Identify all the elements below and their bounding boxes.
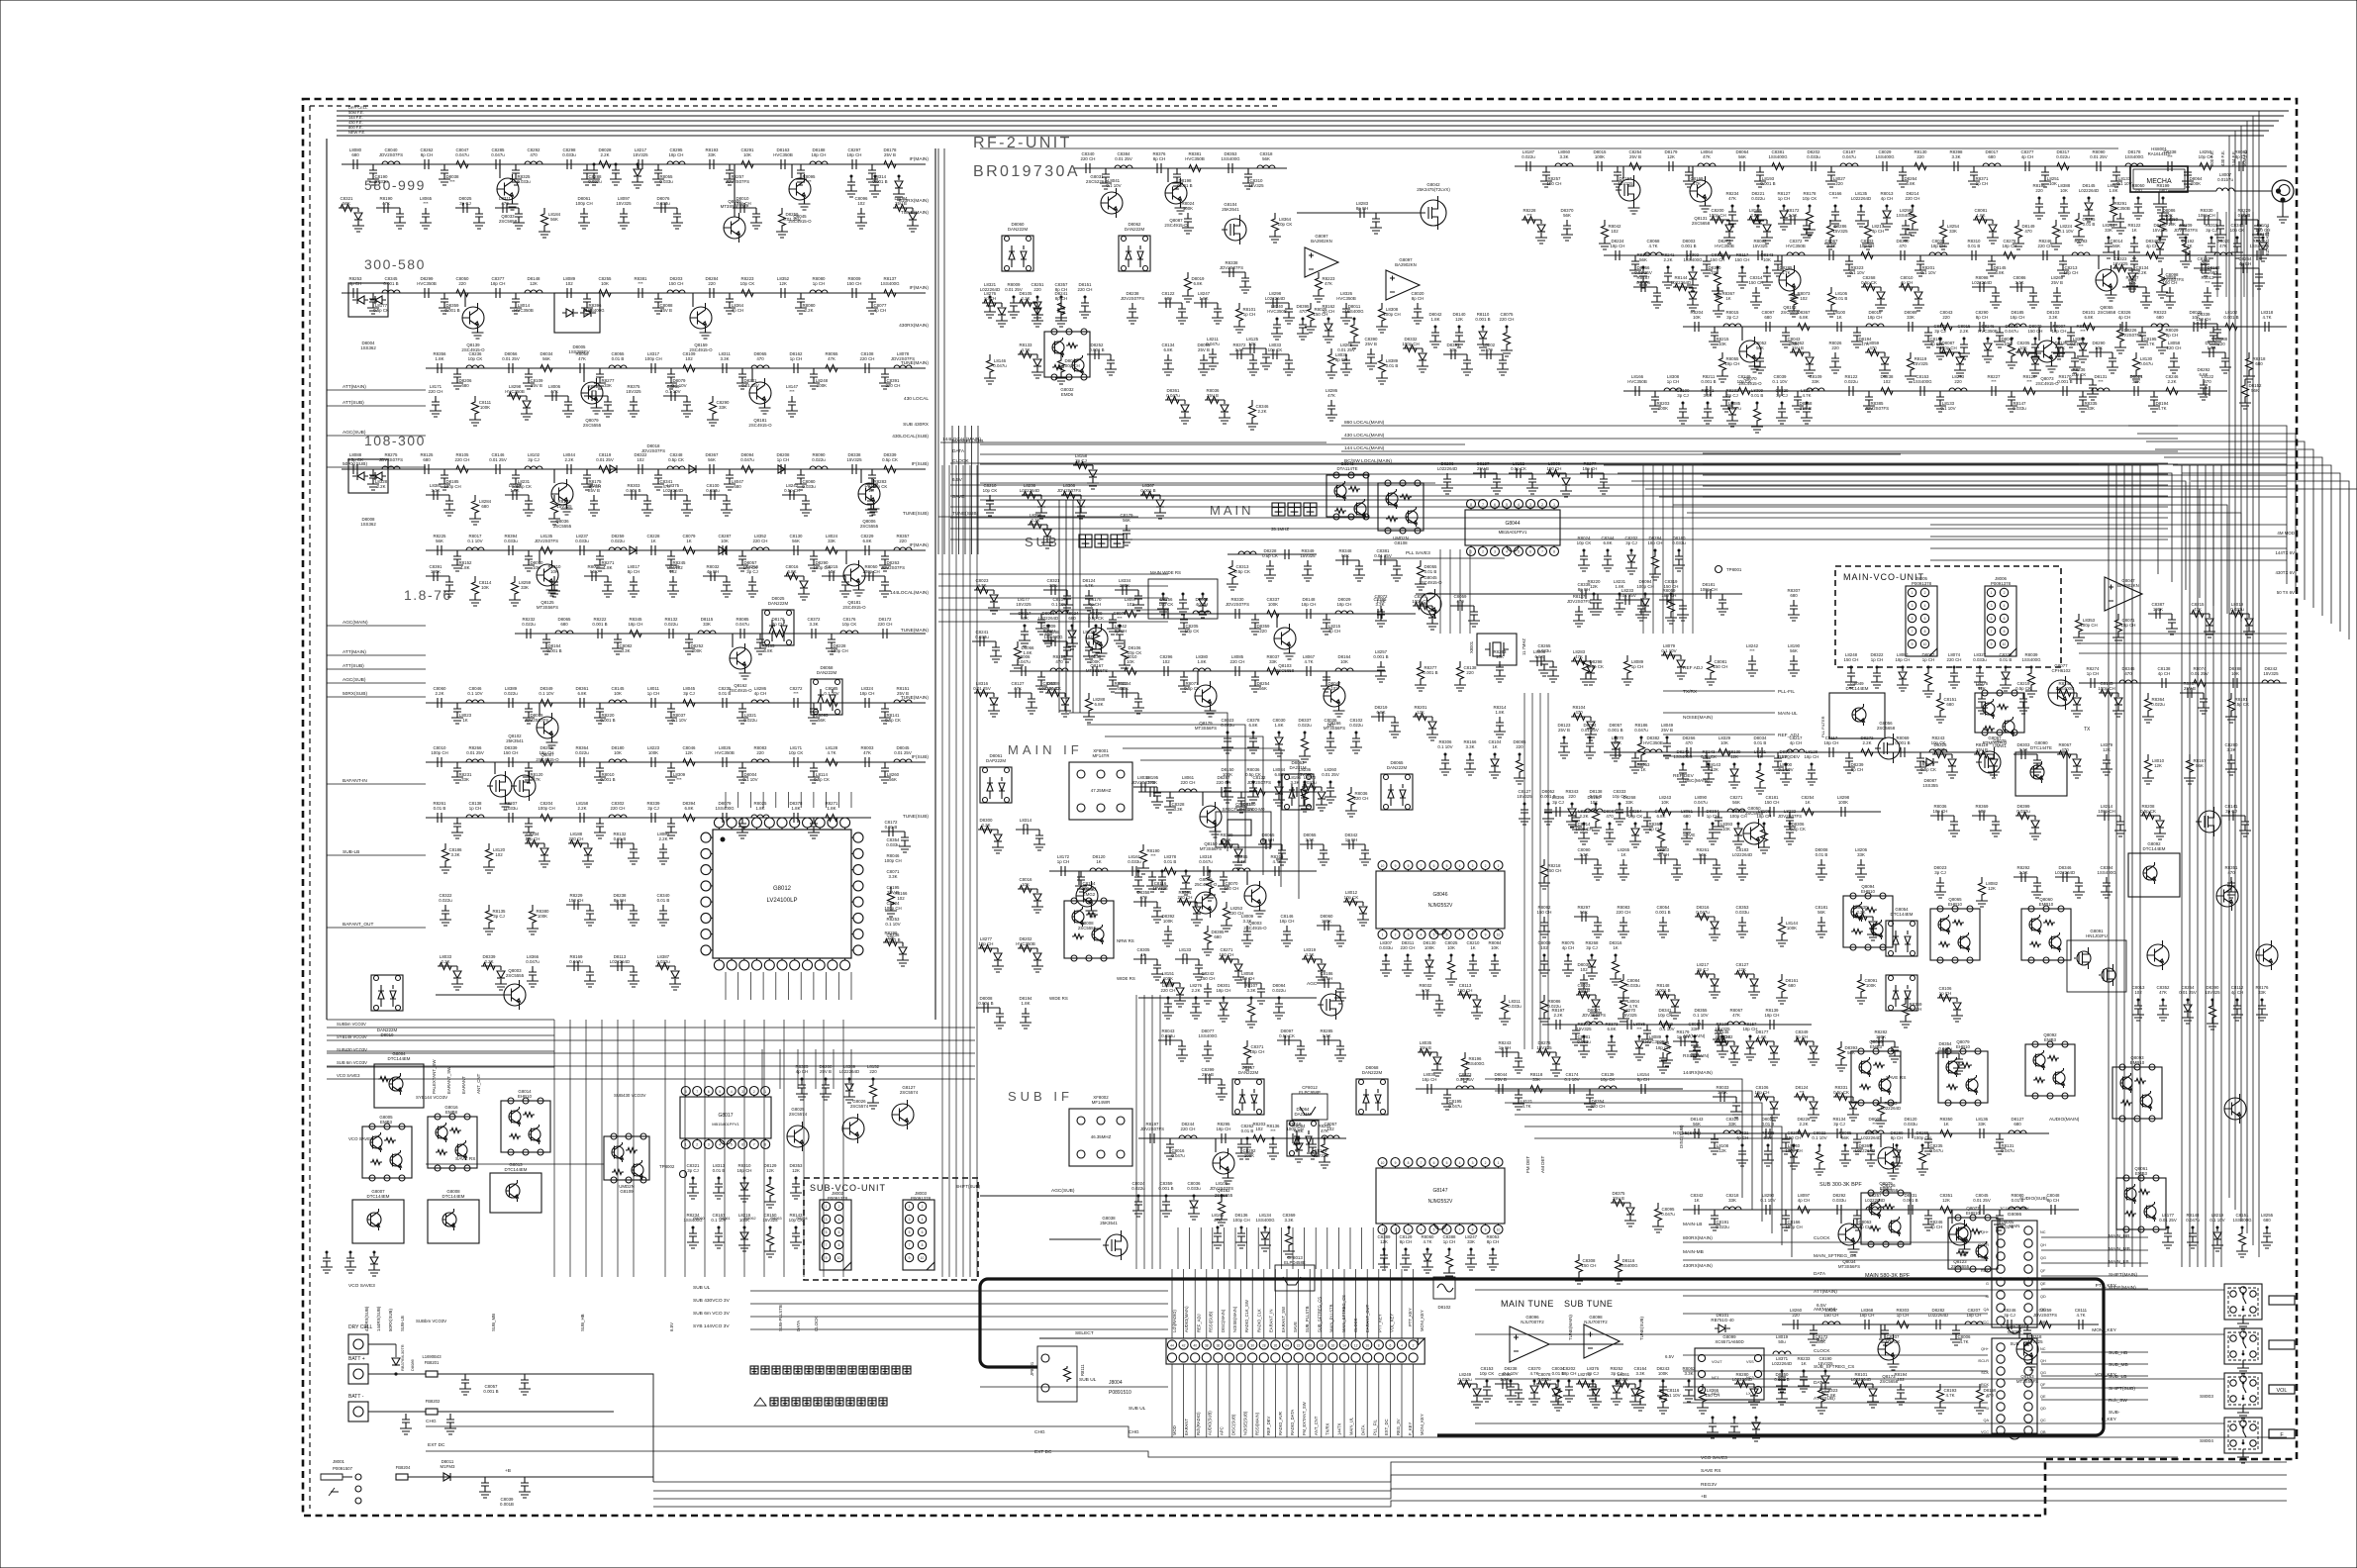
svg-text:6.8K: 6.8K <box>1906 181 1915 186</box>
svg-text:7: 7 <box>696 1090 698 1094</box>
svg-text:4: 4 <box>838 1218 840 1222</box>
svg-text:47K: 47K <box>1703 154 1711 159</box>
diode box DAN222M G8010 <box>371 975 403 1011</box>
svg-text:102: 102 <box>685 356 693 361</box>
svg-text:WIDE RS: WIDE RS <box>1049 996 1068 1001</box>
svg-text:25K3541: 25K3541 <box>1222 207 1239 212</box>
svg-text:10K: 10K <box>887 935 895 940</box>
svg-text:150 CH: 150 CH <box>2197 317 2211 322</box>
svg-text:0.001 B: 0.001 B <box>1655 910 1670 915</box>
svg-text:BA2902KN: BA2902KN <box>1311 239 1332 244</box>
svg-text:100K: 100K <box>692 648 702 653</box>
svg-text:ATT(SUB): ATT(SUB) <box>343 663 364 669</box>
svg-text:0.1 10V: 0.1 10V <box>1106 183 1121 188</box>
svg-text:VOL_KEY: VOL_KEY <box>2095 1372 2117 1378</box>
svg-text:12K: 12K <box>1978 686 1986 691</box>
svg-text:5: 5 <box>1991 617 1993 621</box>
ref adj rc2 <box>1224 733 1231 747</box>
svg-text:10K: 10K <box>2019 345 2027 350</box>
svg-text:MAIN: MAIN <box>1210 503 1254 518</box>
page dashed border frame <box>303 99 2297 1516</box>
svg-text:10K: 10K <box>1447 945 1455 950</box>
svg-text:RADIO_AVR: RADIO_AVR <box>1278 1412 1283 1435</box>
svg-text:0.01 25V: 0.01 25V <box>973 686 991 691</box>
svg-text:DTC144EM: DTC144EM <box>1846 686 1869 691</box>
DA221M box <box>1282 774 1314 810</box>
svg-text:470: 470 <box>530 152 538 157</box>
svg-text:10K: 10K <box>1491 945 1499 950</box>
svg-text:220 CH: 220 CH <box>1401 945 1416 950</box>
svg-text:1.8K: 1.8K <box>791 806 800 811</box>
svg-text:470: 470 <box>1606 814 1614 819</box>
svg-text:0.1 10V: 0.1 10V <box>467 691 482 696</box>
svg-text:8p CH: 8p CH <box>1578 587 1590 592</box>
filler topright gaps b <box>1633 286 1657 288</box>
svg-text:102: 102 <box>1580 967 1588 972</box>
svg-text:G: G <box>1986 1282 1989 1286</box>
svg-text:1SS400G: 1SS400G <box>1913 379 1932 384</box>
svg-text:25V B: 25V B <box>588 488 600 493</box>
svg-text:2.2K: 2.2K <box>1750 213 1759 218</box>
svg-text:10K: 10K <box>1720 740 1728 745</box>
svg-text:47K: 47K <box>1014 686 1022 691</box>
board boundary thick line <box>980 1279 2104 1435</box>
svg-text:EMB10: EMB10 <box>2039 902 2054 907</box>
svg-text:RA1614110: RA1614110 <box>2148 151 2171 156</box>
filler topright gaps a <box>1522 219 1541 221</box>
svg-text:56K: 56K <box>1639 257 1647 262</box>
svg-text:***: *** <box>2205 280 2210 285</box>
svg-text:***: *** <box>1636 1027 1641 1031</box>
svg-text:PTT_KEY: PTT_KEY <box>2096 1283 2117 1289</box>
svg-text:ATT(MAIN): ATT(MAIN) <box>343 384 366 390</box>
svg-text:18p CH: 18p CH <box>979 941 994 946</box>
svg-text:10: 10 <box>1381 864 1385 868</box>
svg-text:15V325: 15V325 <box>2205 990 2220 995</box>
svg-text:2.2K: 2.2K <box>2137 270 2146 275</box>
svg-text:100K: 100K <box>2191 181 2201 186</box>
svg-text:0.001 B: 0.001 B <box>1701 379 1716 384</box>
top power bus wires <box>337 110 2289 112</box>
svg-text:150 CH: 150 CH <box>1547 181 1562 186</box>
svg-text:3.3K: 3.3K <box>1242 919 1251 924</box>
svg-text:10K: 10K <box>1121 686 1129 691</box>
svg-text:EMB3: EMB3 <box>2135 1171 2148 1176</box>
svg-text:EMB3: EMB3 <box>380 1120 393 1125</box>
filler mainif-njm <box>1164 926 1172 940</box>
svg-text:SCK: SCK <box>1981 1256 1989 1260</box>
svg-text:0.047u: 0.047u <box>1938 1046 1952 1051</box>
svg-text:18p CH: 18p CH <box>2064 270 2079 275</box>
svg-text:SYB 144VCO 3V: SYB 144VCO 3V <box>693 1323 730 1329</box>
antenna jack <box>2272 180 2294 202</box>
svg-text:0.01 B: 0.01 B <box>1762 1122 1775 1127</box>
svg-text:220: 220 <box>1942 315 1950 320</box>
svg-text:0.1 10V: 0.1 10V <box>1772 379 1787 384</box>
svg-text:HVC350B: HVC350B <box>773 152 793 157</box>
svg-text:SUB 6m VCO3V: SUB 6m VCO3V <box>337 1060 367 1065</box>
svg-text:QE: QE <box>2040 1282 2046 1286</box>
RX row 580-999 amp <box>724 217 745 239</box>
svg-text:AGC(MAIN): AGC(MAIN) <box>343 620 368 626</box>
svg-text:1K: 1K <box>1613 945 1618 950</box>
svg-text:220 CH: 220 CH <box>1081 156 1096 161</box>
svg-text:NC: NC <box>2040 1230 2046 1234</box>
svg-text:BUSY: BUSY <box>2275 1299 2290 1305</box>
center right rc A <box>1580 824 1588 838</box>
svg-text:470: 470 <box>1899 244 1907 248</box>
svg-text:7: 7 <box>1991 630 1993 634</box>
main if mid rc <box>1134 871 1142 886</box>
svg-text:18p CH: 18p CH <box>491 281 506 286</box>
svg-text:+B: +B <box>505 1468 511 1474</box>
svg-text:QA: QA <box>1984 1308 1990 1312</box>
sr wires <box>1683 1241 1988 1243</box>
svg-text:18p CH: 18p CH <box>2011 315 2025 320</box>
svg-text:8p CH: 8p CH <box>1055 296 1067 301</box>
svg-text:56K: 56K <box>2112 244 2120 248</box>
svg-text:0.033u: 0.033u <box>1187 1186 1201 1191</box>
svg-text:ELPD458E: ELPD458E <box>1284 1260 1306 1265</box>
FET G8104 <box>1225 219 1246 241</box>
svg-text:2SC5574: 2SC5574 <box>850 1104 869 1109</box>
svg-text:6.8K: 6.8K <box>1799 315 1808 320</box>
svg-text:150 CH: 150 CH <box>1547 466 1562 471</box>
svg-text:3: 3 <box>1408 933 1410 937</box>
svg-text:18p CH: 18p CH <box>1933 809 1948 814</box>
svg-text:0.033u: 0.033u <box>802 484 816 489</box>
svg-text:10: 10 <box>837 1256 841 1260</box>
svg-text:FB8202: FB8202 <box>426 1399 441 1404</box>
svg-text:47K: 47K <box>828 356 835 361</box>
svg-text:0.1 10V: 0.1 10V <box>742 777 757 782</box>
svg-text:144RX(MAIN): 144RX(MAIN) <box>1683 1070 1713 1076</box>
svg-text:EHB10: EHB10 <box>1966 1211 1980 1216</box>
svg-text:0.047u: 0.047u <box>993 363 1007 368</box>
svg-text:12K: 12K <box>779 281 787 286</box>
svg-text:TC74VHC595FK: TC74VHC595FK <box>2000 1206 2029 1211</box>
svg-text:102: 102 <box>495 852 503 857</box>
svg-text:2.2K: 2.2K <box>564 457 573 462</box>
svg-text:EXT DC: EXT DC <box>1034 1449 1052 1455</box>
svg-text:3p CJ: 3p CJ <box>1677 393 1688 398</box>
svg-text:4p CH: 4p CH <box>1798 1198 1810 1203</box>
svg-text:10p CK: 10p CK <box>1658 1013 1673 1018</box>
svg-text:DTA114TE: DTA114TE <box>1336 466 1357 471</box>
svg-text:220: 220 <box>869 1069 877 1074</box>
svg-text:SUB_MB: SUB_MB <box>2109 1362 2128 1368</box>
svg-text:RB751G-40: RB751G-40 <box>1711 1318 1734 1323</box>
svg-text:10K: 10K <box>2060 188 2068 193</box>
svg-text:0.047u: 0.047u <box>1696 910 1710 915</box>
svg-text:D8086: D8086 <box>410 1358 415 1371</box>
svg-text:18: 18 <box>1320 1343 1324 1347</box>
svg-text:470: 470 <box>1055 659 1063 664</box>
svg-text:0.047u: 0.047u <box>1206 342 1220 346</box>
svg-text:3p CJ: 3p CJ <box>1586 945 1597 950</box>
svg-text:SYB144 VCO3V: SYB144 VCO3V <box>416 1095 447 1100</box>
svg-text:680: 680 <box>1788 983 1796 988</box>
svg-text:6.8K: 6.8K <box>862 539 871 543</box>
svg-text:102: 102 <box>1800 296 1808 301</box>
svg-text:0.1 10V: 0.1 10V <box>1564 1077 1579 1082</box>
svg-text:102: 102 <box>565 281 573 286</box>
svg-text:MAIN_HB: MAIN_HB <box>2109 1233 2129 1239</box>
svg-text:2: 2 <box>1485 1161 1487 1165</box>
svg-text:50RX(SUB): 50RX(SUB) <box>343 691 367 697</box>
svg-text:47K: 47K <box>1728 196 1736 201</box>
svg-text:220: 220 <box>1835 181 1843 186</box>
svg-text:25V B: 25V B <box>884 152 896 157</box>
key wires <box>1475 1289 2224 1291</box>
svg-text:10K: 10K <box>2095 345 2103 350</box>
svg-text:4: 4 <box>1421 933 1423 937</box>
svg-text:56K: 56K <box>792 539 800 543</box>
svg-text:0.022u: 0.022u <box>743 718 757 723</box>
svg-text:10p CK: 10p CK <box>983 488 998 493</box>
svg-text:MT3S56FS: MT3S56FS <box>537 605 558 610</box>
svg-text:QH+: QH+ <box>1981 1347 1990 1351</box>
svg-text:10p CK: 10p CK <box>789 750 804 755</box>
svg-text:3.3K: 3.3K <box>1284 1218 1293 1223</box>
svg-text:IF(MAIN): IF(MAIN) <box>910 542 930 548</box>
bpf row sub <box>1683 1209 2079 1211</box>
svg-text:3.3K: 3.3K <box>720 356 729 361</box>
svg-text:3.3K: 3.3K <box>1559 154 1568 159</box>
svg-text:0.5p CK: 0.5p CK <box>373 308 389 313</box>
svg-text:9: 9 <box>1991 642 1993 646</box>
svg-text:6: 6 <box>741 1143 743 1147</box>
svg-text:5: 5 <box>1518 550 1520 554</box>
svg-text:G8109: G8109 <box>620 1189 634 1194</box>
svg-text:SUB IF: SUB IF <box>1008 1089 1073 1104</box>
svg-text:3: 3 <box>1991 604 1993 608</box>
svg-text:0.047u: 0.047u <box>455 152 469 157</box>
left vertical drops <box>553 1020 555 1277</box>
svg-text:12K: 12K <box>792 1168 800 1173</box>
svg-text:1: 1 <box>1382 1228 1384 1232</box>
svg-text:0.047u: 0.047u <box>1842 154 1856 159</box>
svg-text:220 CH: 220 CH <box>878 622 893 627</box>
svg-text:18p CH: 18p CH <box>1896 657 1911 662</box>
svg-text:IF(MAIN): IF(MAIN) <box>910 156 930 162</box>
svg-text:0.047u: 0.047u <box>1661 1212 1675 1217</box>
svg-text:4p CH: 4p CH <box>1562 945 1574 950</box>
svg-text:100p CH: 100p CH <box>1785 1225 1802 1229</box>
svg-text:56K: 56K <box>550 217 558 222</box>
svg-text:10p CK: 10p CK <box>1480 1371 1495 1376</box>
svg-text:18p CH: 18p CH <box>1423 1077 1437 1082</box>
mid-bottom Japanese note 2 <box>754 1398 766 1406</box>
svg-text:MAIN IF: MAIN IF <box>1008 742 1083 757</box>
DTC G8008 <box>428 1200 479 1243</box>
svg-text:ANT_CNT: ANT_CNT <box>1314 1416 1319 1435</box>
svg-text:2.2K: 2.2K <box>804 308 813 313</box>
filler multiplier top <box>1231 560 1233 564</box>
svg-text:100K: 100K <box>648 750 658 755</box>
svg-text:150 CH: 150 CH <box>1458 988 1473 993</box>
svg-text:SHIFT(MAIN): SHIFT(MAIN) <box>2109 1272 2137 1278</box>
svg-text:150 CH: 150 CH <box>1547 868 1562 873</box>
svg-text:2SC5555: 2SC5555 <box>1951 1264 1970 1269</box>
svg-text:150 CH: 150 CH <box>2028 329 2043 334</box>
svg-text:0.001 B: 0.001 B <box>1655 988 1670 993</box>
VCO conn J8005 <box>1906 586 1937 656</box>
svg-text:2SC5658: 2SC5658 <box>1745 811 1764 816</box>
svg-text:33K: 33K <box>2087 406 2095 411</box>
svg-text:1p CH: 1p CH <box>1631 664 1643 669</box>
svg-text:0.1 10V: 0.1 10V <box>1920 270 1935 275</box>
svg-text:TP8002: TP8002 <box>659 1164 675 1169</box>
svg-text:JDV2S07FS: JDV2S07FS <box>1210 1186 1233 1191</box>
svg-text:220: 220 <box>708 281 716 286</box>
svg-text:42: 42 <box>1182 1343 1186 1347</box>
svg-text:ELPC958P: ELPC958P <box>1299 1090 1321 1095</box>
svg-text:220 CH: 220 CH <box>1181 780 1196 785</box>
svg-text:0.022u: 0.022u <box>1751 196 1765 201</box>
svg-text:20: 20 <box>1308 1343 1312 1347</box>
svg-text:0.033u: 0.033u <box>706 488 720 493</box>
svg-text:6.8K: 6.8K <box>1763 1135 1772 1140</box>
svg-text:25K3541: 25K3541 <box>506 738 524 743</box>
svg-text:VOL_KEY: VOL_KEY <box>1390 1314 1395 1332</box>
svg-text:RB376M-30TR: RB376M-30TR <box>400 1344 405 1371</box>
svg-text:680: 680 <box>1164 296 1172 301</box>
svg-text:12K: 12K <box>1455 317 1463 322</box>
svg-text:6.8K: 6.8K <box>1534 654 1543 659</box>
left bottom horizontals <box>327 1019 554 1021</box>
svg-text:100p CH: 100p CH <box>431 750 447 755</box>
svg-text:0.01 B: 0.01 B <box>1424 569 1437 574</box>
svg-text:SUB_SFTREG_CS: SUB_SFTREG_CS <box>1317 1297 1322 1332</box>
upper mid verticals <box>1439 549 1441 634</box>
svg-text:220: 220 <box>899 539 907 543</box>
svg-text:100K: 100K <box>1866 983 1876 988</box>
svg-text:3p CJ: 3p CJ <box>528 457 539 462</box>
svg-text:5: 5 <box>1912 617 1914 621</box>
svg-text:3.3K: 3.3K <box>1465 744 1474 749</box>
RX row 50RX <box>426 761 926 763</box>
svg-text:1.8K: 1.8K <box>1023 650 1031 655</box>
svg-text:1.8K: 1.8K <box>1199 296 1208 301</box>
svg-text:0.1 10V: 0.1 10V <box>665 389 680 394</box>
svg-text:10K: 10K <box>614 691 622 696</box>
svg-text:FM_EXTANT_SW: FM_EXTANT_SW <box>1302 1402 1307 1435</box>
mid bus lines <box>938 516 1138 518</box>
svg-text:0.022u: 0.022u <box>1716 1225 1729 1229</box>
svg-text:35.1MHZ: 35.1MHZ <box>1271 527 1289 532</box>
filler subif east2 <box>1611 1202 1630 1204</box>
svg-text:220: 220 <box>1782 754 1790 759</box>
svg-text:0.047u: 0.047u <box>1448 1104 1462 1109</box>
svg-text:0.033u: 0.033u <box>1735 910 1749 915</box>
svg-text:***: *** <box>449 179 454 184</box>
svg-text:2SC5658: 2SC5658 <box>1880 1379 1899 1384</box>
svg-text:680: 680 <box>2263 1218 2271 1223</box>
svg-text:18p CH: 18p CH <box>1765 1013 1780 1018</box>
svg-text:1K: 1K <box>1805 800 1810 805</box>
svg-text:100K: 100K <box>480 405 490 410</box>
svg-text:2.2K: 2.2K <box>1862 740 1871 745</box>
svg-text:NEW F.E.: NEW F.E. <box>348 130 365 135</box>
connector north verticals <box>1177 1227 1179 1269</box>
svg-text:680: 680 <box>481 504 489 509</box>
svg-text:10: 10 <box>2003 642 2007 646</box>
pll bottom rc <box>798 1079 806 1094</box>
svg-text:100p CH: 100p CH <box>2198 213 2214 218</box>
svg-text:2SC4915-O: 2SC4915-O <box>2035 381 2059 386</box>
svg-text:2: 2 <box>1541 503 1543 507</box>
svg-text:HVC350B: HVC350B <box>1185 156 1205 161</box>
svg-text:33K: 33K <box>1812 379 1819 384</box>
svg-text:8p CH: 8p CH <box>1153 156 1165 161</box>
filler right upper <box>1939 693 1941 697</box>
svg-text:2.2K: 2.2K <box>577 806 586 811</box>
svg-text:56K: 56K <box>1563 213 1571 218</box>
svg-text:12K: 12K <box>685 750 693 755</box>
svg-text:***: *** <box>789 389 794 394</box>
svg-text:JDV2S07FS: JDV2S07FS <box>1131 780 1155 785</box>
filler left rows gap6 <box>444 843 446 847</box>
svg-text:1p CH: 1p CH <box>984 296 996 301</box>
svg-text:18p CH: 18p CH <box>1217 1127 1231 1131</box>
svg-text:4.7K: 4.7K <box>2076 1313 2085 1318</box>
svg-text:4p CH: 4p CH <box>1196 602 1208 607</box>
svg-text:8: 8 <box>1408 864 1410 868</box>
svg-text:33K: 33K <box>1949 229 1957 234</box>
svg-text:BR019730A: BR019730A <box>973 163 1080 180</box>
svg-text:Lch(RADIO): Lch(RADIO) <box>1172 1310 1177 1332</box>
svg-text:8: 8 <box>1472 933 1474 937</box>
opamp BA2902KN 2 <box>1386 270 1420 300</box>
svg-text:12K: 12K <box>1738 967 1746 972</box>
svg-text:10K: 10K <box>1340 659 1348 664</box>
mid row saves <box>1416 593 1742 595</box>
svg-text:0.033u: 0.033u <box>2230 607 2244 612</box>
svg-text:430 LOCAL: 430 LOCAL <box>904 396 929 402</box>
svg-text:0.1 10V: 0.1 10V <box>1693 1013 1708 1018</box>
svg-text:PLL FILTER: PLL FILTER <box>1820 716 1825 737</box>
svg-text:470: 470 <box>1869 345 1877 350</box>
svg-text:220: 220 <box>1568 794 1576 799</box>
svg-text:15V325: 15V325 <box>633 152 648 157</box>
svg-text:0.5p CK: 0.5p CK <box>347 457 363 462</box>
svg-text:1p CH: 1p CH <box>1939 991 1951 996</box>
svg-text:220 CH: 220 CH <box>569 836 584 841</box>
svg-text:ATT(MAIN): ATT(MAIN) <box>343 649 366 655</box>
svg-text:15V325: 15V325 <box>1300 553 1316 558</box>
svg-text:150 CH: 150 CH <box>847 281 862 286</box>
svg-text:150 CH: 150 CH <box>1314 312 1328 317</box>
svg-text:10K: 10K <box>743 152 751 157</box>
svg-text:1K: 1K <box>2131 228 2136 233</box>
svg-text:0.033u: 0.033u <box>504 806 518 811</box>
center right rc B <box>1580 1036 1588 1051</box>
svg-text:0.01 25V: 0.01 25V <box>1322 772 1339 777</box>
svg-text:220 CH: 220 CH <box>1906 196 1920 201</box>
right col vertical bundle 2 <box>2108 465 2110 1267</box>
svg-text:0.047u: 0.047u <box>1694 800 1708 805</box>
svg-text:HVC350B: HVC350B <box>2111 206 2130 211</box>
svg-text:4.7K: 4.7K <box>827 750 835 755</box>
svg-text:L022264D: L022264D <box>1020 488 1039 493</box>
svg-text:L022264D: L022264D <box>1851 1377 1871 1382</box>
left-mid connect lines <box>938 573 1168 575</box>
svg-text:6.8K: 6.8K <box>1094 702 1103 707</box>
svg-text:1SS355: 1SS355 <box>1922 783 1938 788</box>
svg-text:150 CH: 150 CH <box>1225 886 1239 891</box>
filler agc band <box>1073 464 1093 466</box>
